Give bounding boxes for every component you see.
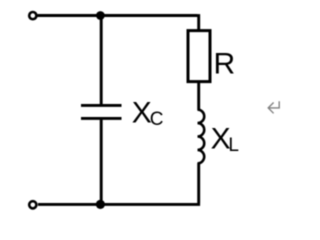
svg-text:X: X [132,97,152,130]
svg-text:L: L [228,135,239,156]
svg-text:R: R [214,48,236,81]
svg-text:C: C [150,109,164,130]
